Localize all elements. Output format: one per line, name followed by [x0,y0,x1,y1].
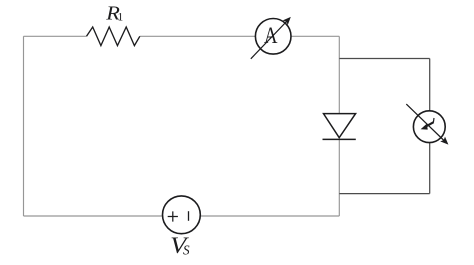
svg-text:1: 1 [118,11,124,24]
wire: top, resistor R1 to ammeter [140,35,255,37]
resistor R1 [87,27,140,46]
source VS plus polarity mark [168,211,178,221]
wire: diode branch, diode cathode down to bottom rail [338,140,340,216]
diode D1 cathode bar [323,138,356,140]
voltmeter U2 [406,104,448,145]
diode D1 anode triangle [324,114,356,138]
ammeter U1 body [255,19,291,55]
wire: top, ammeter to diode branch corner [292,35,340,37]
wire: top, corner to resistor R1 [24,35,87,37]
wire: bottom, diode branch to source VS [200,215,339,217]
svg-text:S: S [183,242,190,257]
wire: voltmeter branch right vertical below meter [429,143,431,194]
wire: left vertical (node left rail) [23,36,25,216]
wire: diode branch, top corner down to diode anode [338,36,340,113]
ammeter U1 [251,17,291,59]
ammeter U1 diagonal arrow [251,21,288,59]
wire: bottom, source VS to left corner [24,215,163,217]
source VS minus polarity bar [188,211,190,221]
source VS [163,196,201,234]
svg-text:A: A [264,22,277,48]
wire: voltmeter branch top horizontal [339,58,429,60]
diode D1 [323,114,356,140]
voltmeter U2 needle glyph [421,124,428,130]
wire: voltmeter branch right vertical above meter [429,59,431,112]
wire: voltmeter branch bottom horizontal [339,193,429,195]
source VS body [163,196,201,234]
voltmeter U2 diagonal arrow [406,104,444,141]
voltmeter U2 body [413,111,445,143]
